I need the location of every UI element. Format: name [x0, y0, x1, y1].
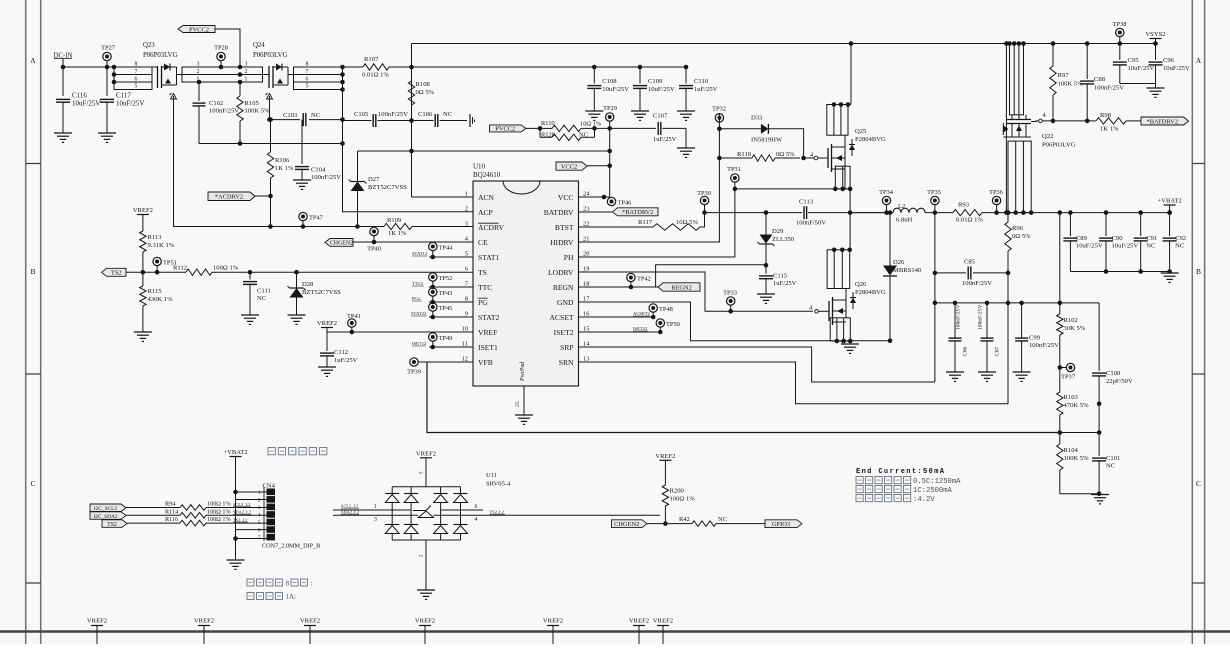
wire U11 pin1 — [333, 509, 411, 511]
svg-text:CON7_2.0MM_DIP_B: CON7_2.0MM_DIP_B — [262, 543, 320, 550]
svg-text:TS2_L2: TS2_L2 — [233, 517, 247, 522]
transistor Q26 drain package — [827, 250, 850, 289]
wire HIDRV — [579, 113, 720, 242]
ground — [677, 110, 695, 112]
svg-text:1: 1 — [465, 191, 468, 198]
capacitor C99 100nF/25V — [1021, 303, 1023, 338]
mosfet Q26 P2804BVG — [828, 301, 830, 321]
svg-text:TTC: TTC — [478, 283, 492, 292]
svg-text:ACN: ACN — [478, 193, 495, 202]
test point TP41 — [348, 319, 356, 327]
test point TP30 — [700, 196, 708, 204]
svg-text:VFB: VFB — [478, 358, 493, 367]
svg-text:C117: C117 — [116, 92, 131, 100]
svg-text:LODRV: LODRV — [548, 268, 574, 277]
svg-text:TP48: TP48 — [659, 306, 673, 313]
capacitor C95 10uF/25V — [1119, 44, 1121, 61]
svg-text:22: 22 — [583, 221, 589, 228]
svg-text:TP27: TP27 — [101, 45, 116, 52]
svg-text:VREF2: VREF2 — [87, 618, 107, 625]
svg-text:9: 9 — [465, 311, 468, 318]
svg-text:TP47: TP47 — [309, 215, 324, 222]
svg-text:Q24: Q24 — [253, 42, 265, 49]
svg-text:R128: R128 — [541, 132, 555, 139]
capacitor C102 100nF/25V — [198, 82, 200, 101]
ground — [631, 110, 649, 112]
svg-text:TP43: TP43 — [439, 290, 453, 297]
svg-text:HIDRV: HIDRV — [550, 238, 574, 247]
svg-text:VREF: VREF — [478, 328, 497, 337]
svg-text:8: 8 — [306, 62, 309, 68]
ground — [54, 132, 72, 134]
note text chinese battery — [268, 448, 275, 455]
svg-text:6.8uH: 6.8uH — [896, 217, 913, 224]
test point TP38 — [1118, 41, 1123, 46]
wire Q22 bypass pin — [1005, 44, 1007, 213]
svg-text:8: 8 — [135, 62, 138, 68]
svg-text:CN4: CN4 — [263, 483, 276, 490]
capacitor C89 10uF/25V — [1068, 210, 1073, 215]
test point TP47 — [299, 212, 307, 220]
power flag +VBAT2 — [230, 456, 242, 458]
svg-text:U10: U10 — [473, 163, 486, 171]
svg-text:12: 12 — [462, 356, 468, 363]
svg-text:VREF2: VREF2 — [655, 453, 675, 460]
wire C95 C96 gnd rail — [1120, 83, 1156, 85]
net label *BATDRV2 — [1141, 117, 1189, 125]
power flag VREF2 — [321, 327, 333, 329]
svg-text:100nF/25V: 100nF/25V — [1029, 342, 1059, 349]
capacitor C88 100nF/25V — [1085, 41, 1090, 46]
net label CHGEN2 — [325, 239, 353, 247]
net label TS2 — [102, 268, 127, 276]
resistor R109 1K 1% — [384, 223, 412, 229]
svg-text:100K 5%: 100K 5% — [1064, 455, 1090, 462]
svg-text:C96: C96 — [1163, 57, 1175, 64]
svg-text:R103: R103 — [1064, 394, 1079, 401]
svg-text:100Ω 1%: 100Ω 1% — [670, 496, 696, 503]
svg-text:R114: R114 — [165, 508, 178, 515]
note text charge current — [247, 593, 254, 600]
svg-text:23: 23 — [583, 206, 589, 213]
svg-text:8: 8 — [465, 296, 468, 303]
svg-text:B: B — [30, 267, 35, 276]
ground — [757, 293, 775, 295]
capacitor C101 NC — [1098, 433, 1100, 457]
resistor R106 1K 1% — [270, 120, 272, 152]
diode D26 MBRS140 — [889, 213, 891, 266]
svg-text:1uF/25V: 1uF/25V — [334, 357, 358, 364]
power flag VREF2 — [420, 457, 432, 459]
svg-text:TP33: TP33 — [723, 290, 737, 297]
svg-text:D29: D29 — [772, 228, 784, 235]
capacitor C111 NC — [248, 270, 253, 275]
svg-text:R93: R93 — [958, 202, 970, 209]
svg-text:ZLL350: ZLL350 — [772, 236, 795, 243]
resistor R110 10ohm 1% — [526, 127, 540, 129]
svg-text:17: 17 — [583, 296, 590, 303]
ground — [227, 559, 245, 561]
ground — [288, 314, 306, 316]
svg-text:NC: NC — [257, 295, 267, 302]
svg-text:19: 19 — [583, 266, 589, 273]
svg-text:GPIO3: GPIO3 — [772, 521, 790, 528]
resistor R115 430K 1% — [142, 272, 144, 286]
svg-text:P06P03LVG: P06P03LVG — [253, 52, 288, 59]
resistor R114 100ohm 1% — [126, 514, 180, 516]
svg-text:IN5819HW: IN5819HW — [751, 137, 783, 144]
resistor R104 100K 5% — [1059, 433, 1061, 445]
wire PG — [429, 301, 473, 303]
svg-text:5: 5 — [135, 84, 138, 90]
wire VCC node — [595, 127, 657, 129]
ground — [134, 331, 152, 333]
svg-text:SCL2_L2: SCL2_L2 — [233, 502, 250, 507]
svg-text:I2C_SDA2: I2C_SDA2 — [93, 514, 118, 520]
test point TP43 — [429, 288, 437, 296]
svg-text:ACP: ACP — [478, 208, 493, 217]
svg-text:1uF/25V: 1uF/25V — [653, 136, 677, 143]
svg-text:10uF/25V: 10uF/25V — [1128, 65, 1155, 72]
svg-text:TP35: TP35 — [927, 189, 941, 196]
wire D27 to ACN node — [358, 150, 412, 152]
ground — [1091, 494, 1109, 496]
svg-text:VCC2: VCC2 — [561, 163, 577, 170]
svg-text:Q26: Q26 — [855, 281, 867, 288]
bottom sheet divider — [0, 630, 1230, 632]
wire switch node upper — [705, 212, 803, 214]
svg-text:10uF/25V: 10uF/25V — [1163, 65, 1190, 72]
svg-text:R110: R110 — [541, 120, 555, 127]
mosfet Q22 P06P03LVG — [1007, 119, 1031, 121]
ground — [1147, 87, 1165, 89]
svg-text:6: 6 — [306, 76, 309, 82]
resistor R105 100K 5% — [239, 82, 241, 96]
svg-text:NC: NC — [443, 111, 453, 118]
svg-text:10uF/25V: 10uF/25V — [116, 100, 144, 108]
capacitor C100 22pF/50V — [1098, 303, 1100, 371]
test point TP48 — [649, 304, 657, 312]
svg-text:SDA2_L2: SDA2_L2 — [341, 510, 359, 515]
wire STAT2 — [429, 316, 473, 318]
svg-text:R117: R117 — [638, 219, 653, 226]
svg-text:P06P03LVG: P06P03LVG — [1042, 142, 1076, 149]
svg-text:C99: C99 — [1029, 335, 1041, 342]
net label GPIO3 — [765, 520, 802, 528]
svg-text:R97: R97 — [1058, 72, 1070, 79]
svg-text:1K 1%: 1K 1% — [275, 165, 294, 172]
svg-text:0.01Ω 1%: 0.01Ω 1% — [956, 217, 983, 224]
svg-text:100Ω 1%: 100Ω 1% — [207, 508, 231, 515]
svg-text:STAT2: STAT2 — [478, 313, 500, 322]
test point TP34 — [882, 196, 890, 204]
capacitor C85 100nF/25V — [935, 272, 966, 274]
test point TP36 — [992, 196, 1000, 204]
svg-text:1: 1 — [258, 490, 261, 496]
capacitor C116 — [62, 67, 64, 96]
wire ACSET pin16 — [579, 316, 654, 318]
svg-text:C89: C89 — [1076, 235, 1088, 242]
wire CN4 pin7 — [236, 538, 267, 540]
svg-text:TTC2: TTC2 — [412, 281, 424, 286]
svg-text:NC: NC — [1175, 243, 1185, 250]
svg-text:2: 2 — [245, 69, 248, 75]
ground — [515, 414, 533, 416]
test point TP35 — [931, 196, 939, 204]
svg-text:TP42: TP42 — [637, 276, 651, 283]
svg-text:BZT52C7VSS: BZT52C7VSS — [368, 184, 407, 191]
svg-text:*ACDRV2: *ACDRV2 — [215, 194, 243, 201]
svg-text:R106: R106 — [275, 157, 290, 164]
resistor R103 470K 5% — [1057, 392, 1063, 415]
wire Q22 gate line — [1042, 120, 1096, 122]
resistor R119 0ohm 5% — [719, 157, 752, 159]
wire L2 to R93 — [925, 212, 953, 214]
svg-text:7: 7 — [306, 69, 309, 75]
svg-text:+VBAT2: +VBAT2 — [223, 449, 247, 456]
transistor Q25 drain package — [827, 105, 848, 136]
ground — [1161, 272, 1179, 274]
test point TP49 — [429, 333, 437, 341]
svg-text:REGN2: REGN2 — [671, 284, 692, 291]
resistor R113 9.31K 1% — [140, 231, 146, 252]
net label PVCC2 — [178, 26, 215, 33]
svg-text:R119: R119 — [737, 151, 752, 158]
transistor Q22 drain package lower — [1008, 141, 1031, 213]
ground — [98, 132, 116, 134]
svg-text:TP29: TP29 — [603, 105, 617, 112]
wire VREF — [327, 331, 473, 333]
svg-text:D27: D27 — [368, 176, 380, 183]
wire CE — [353, 241, 473, 243]
svg-text:6: 6 — [465, 266, 468, 273]
wire VFB long run — [427, 362, 1060, 433]
wire TS line — [126, 271, 186, 273]
svg-text:VSYS2: VSYS2 — [1145, 31, 1165, 38]
svg-text:100nF/25V: 100nF/25V — [209, 108, 239, 115]
svg-text:R108: R108 — [416, 81, 431, 88]
svg-text:ACSET2: ACSET2 — [633, 311, 651, 316]
svg-text:470K 5%: 470K 5% — [1064, 402, 1090, 409]
svg-text:ISET1: ISET1 — [478, 343, 498, 352]
svg-text:1: 1 — [245, 76, 248, 82]
ground — [241, 314, 259, 316]
svg-text:VCC: VCC — [558, 193, 574, 202]
svg-text:C116: C116 — [72, 92, 87, 100]
svg-text:0Ω 5%: 0Ω 5% — [776, 151, 795, 158]
svg-text:VREF2: VREF2 — [416, 450, 436, 457]
svg-text:1K 1%: 1K 1% — [388, 230, 407, 237]
svg-text:13: 13 — [583, 356, 589, 363]
capacitor C96 10uF/25V — [1153, 41, 1158, 46]
wire C102 top junction — [197, 80, 202, 85]
wire ACN vertical — [411, 44, 413, 198]
svg-text:TP32: TP32 — [712, 106, 726, 113]
svg-text:PG: PG — [478, 298, 488, 307]
svg-text:R102: R102 — [1064, 317, 1078, 324]
svg-text:2: 2 — [465, 206, 468, 213]
ground — [841, 343, 859, 345]
capacitor C115 1uF/25V — [765, 265, 767, 274]
power flag VREF2 — [659, 459, 671, 461]
wire REGN — [579, 286, 659, 288]
ground — [318, 366, 336, 368]
svg-text:25: 25 — [515, 401, 521, 407]
svg-text:CE: CE — [478, 238, 488, 247]
capacitor C107 1uF/25V — [657, 122, 659, 135]
net label PVCC2 — [490, 125, 527, 132]
svg-text:R105: R105 — [245, 100, 260, 107]
svg-text:9.31K 1%: 9.31K 1% — [148, 242, 175, 249]
wire SRN pin13 — [579, 303, 1009, 404]
svg-text:10uF/25V: 10uF/25V — [72, 100, 100, 108]
svg-text:VREF2: VREF2 — [543, 618, 563, 625]
svg-text:TP44: TP44 — [439, 245, 454, 252]
gate arrow Q23 — [173, 96, 175, 103]
svg-text:0Ω 5%: 0Ω 5% — [1012, 233, 1031, 240]
wire TTC — [429, 286, 473, 288]
border frame — [25, 0, 27, 644]
svg-text:PVCC2: PVCC2 — [189, 26, 209, 33]
capacitor C109 10uF/25V — [639, 67, 641, 84]
note text charge current line2 — [856, 486, 863, 493]
svg-text:C109: C109 — [648, 78, 663, 85]
capacitor C104 100nF/25V — [301, 120, 303, 164]
svg-text:4: 4 — [475, 517, 478, 523]
svg-text:14: 14 — [583, 341, 590, 348]
svg-text:R115: R115 — [148, 288, 163, 295]
svg-text:Q23: Q23 — [143, 42, 155, 49]
svg-text:GND: GND — [557, 298, 574, 307]
wire GND pin17 — [579, 302, 891, 341]
svg-text:R42: R42 — [679, 516, 690, 523]
svg-text:30K 5%: 30K 5% — [1064, 325, 1086, 332]
capacitor C91 NC — [1138, 210, 1143, 215]
test point TP51 — [153, 257, 161, 265]
transistor package middle block pins 3-1 — [182, 67, 263, 82]
wire Q23 drain to middle block — [177, 74, 183, 76]
svg-text:+VBAT2: +VBAT2 — [1157, 198, 1181, 205]
svg-text:1uF/25V: 1uF/25V — [694, 86, 718, 93]
svg-text:5: 5 — [306, 84, 309, 90]
svg-text:20: 20 — [583, 251, 589, 258]
svg-text:TP41: TP41 — [347, 313, 361, 320]
svg-text:ISET12: ISET12 — [412, 341, 427, 346]
svg-text:100Ω 1%: 100Ω 1% — [207, 501, 231, 508]
power flag VREF2 — [137, 214, 149, 216]
svg-text:SCL2_L2: SCL2_L2 — [341, 504, 358, 509]
transistor Q24 package pins 8-5 — [294, 67, 343, 90]
resistor R42 NC — [692, 521, 716, 527]
svg-text:L2: L2 — [898, 203, 905, 210]
wire VCC rail y67 — [412, 66, 687, 68]
wire STAT1 — [429, 256, 473, 258]
net label CHGEN2 — [612, 520, 648, 528]
resistor R94 100ohm 1% — [126, 507, 180, 509]
svg-text:100Ω 1%: 100Ω 1% — [213, 265, 239, 272]
zener D29 ZLL350 — [764, 210, 769, 215]
svg-text:TP49: TP49 — [439, 335, 453, 342]
capacitor C92 NC — [1167, 210, 1172, 215]
resistor R200 100ohm 1% — [662, 485, 668, 506]
svg-text:3: 3 — [465, 221, 468, 228]
svg-text:22pF/50V: 22pF/50V — [1106, 378, 1133, 385]
svg-text:10uF/25V: 10uF/25V — [1112, 243, 1139, 250]
wire SRP pin14 — [579, 347, 935, 382]
svg-text:100nF/25V: 100nF/25V — [1094, 85, 1124, 92]
svg-text::: : — [311, 580, 313, 588]
svg-text:3: 3 — [374, 517, 377, 523]
svg-text:R113: R113 — [148, 234, 163, 241]
svg-text:ACSET: ACSET — [549, 313, 573, 322]
mosfet Q23 symbol — [157, 66, 159, 88]
svg-text:16: 16 — [583, 311, 589, 318]
svg-text:TP37: TP37 — [1061, 374, 1076, 381]
svg-text:TS: TS — [478, 268, 487, 277]
svg-text:R109: R109 — [387, 217, 402, 224]
svg-text:D26: D26 — [893, 259, 905, 266]
wire ISET2 pin15 — [579, 331, 661, 333]
svg-text:MBRS140: MBRS140 — [893, 267, 922, 274]
wire U11 pin6 — [441, 509, 483, 511]
wire CN4 pin2 — [236, 499, 267, 501]
svg-text:VREF2: VREF2 — [653, 618, 673, 625]
svg-text:R98: R98 — [1100, 112, 1112, 119]
svg-text:C: C — [30, 479, 35, 488]
svg-text:100nF/25V: 100nF/25V — [962, 280, 992, 287]
svg-text:R112: R112 — [173, 265, 187, 272]
inductor L2 6.8uH — [850, 212, 893, 214]
svg-text:TS2: TS2 — [107, 522, 117, 528]
resistor R117 10ohm 5% — [579, 226, 654, 228]
svg-text:TP39: TP39 — [407, 369, 421, 376]
wire C102-R105 bottom node — [199, 143, 343, 145]
svg-text:C91: C91 — [1146, 235, 1157, 242]
svg-text:100nF/25V: 100nF/25V — [978, 305, 984, 331]
svg-text:0.01Ω 1%: 0.01Ω 1% — [362, 72, 389, 79]
svg-text:R107: R107 — [364, 56, 379, 63]
test point TP31 — [731, 174, 739, 182]
wire ACP sense — [343, 90, 474, 212]
svg-text:430K 1%: 430K 1% — [148, 296, 174, 303]
wire DC-IN to Q23 — [63, 66, 114, 68]
svg-text:P2804BVG: P2804BVG — [855, 136, 886, 143]
svg-text:6: 6 — [475, 504, 478, 510]
svg-text:R94: R94 — [165, 501, 175, 508]
capacitor C113 100nF/50V bootstrap — [803, 206, 805, 219]
svg-text:NC: NC — [311, 112, 321, 119]
test point TP52 — [429, 273, 437, 281]
ground — [585, 110, 603, 112]
svg-text:NC: NC — [1106, 463, 1116, 470]
svg-text:1: 1 — [374, 504, 377, 510]
svg-text:A: A — [1196, 56, 1202, 65]
svg-text:5: 5 — [465, 251, 468, 258]
capacitor C103 NC — [270, 119, 301, 121]
svg-text:0Ω 5%: 0Ω 5% — [416, 89, 435, 96]
svg-text:8: 8 — [286, 580, 290, 588]
svg-text:11: 11 — [462, 341, 468, 348]
svg-text:3: 3 — [245, 62, 248, 68]
svg-text:100nF/25V: 100nF/25V — [956, 305, 962, 331]
wire cap bank bottom rail — [1070, 271, 1169, 273]
note text charge time — [247, 579, 254, 586]
svg-text:TP36: TP36 — [989, 189, 1003, 196]
svg-text:C110: C110 — [694, 78, 709, 85]
svg-text:ISET2: ISET2 — [554, 328, 574, 337]
test point TP44 — [429, 242, 437, 250]
svg-text:C90: C90 — [1112, 235, 1124, 242]
